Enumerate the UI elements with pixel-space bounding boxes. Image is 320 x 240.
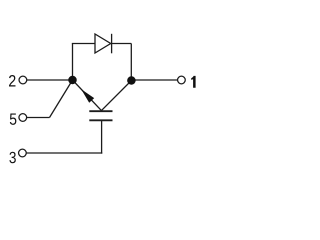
- wire terminal 5 horizontal: [27, 117, 50, 119]
- label terminal 3: [9, 152, 15, 163]
- wire top left horizontal: [72, 43, 95, 45]
- label terminal 1: [191, 76, 195, 88]
- terminal 1 circle: [178, 76, 186, 84]
- terminal 2 circle: [19, 76, 27, 84]
- wire emitter node up to diode anode: [72, 44, 74, 81]
- diode D1 cathode bar: [111, 34, 113, 54]
- wire terminal 2 to emitter node: [27, 79, 73, 81]
- node emitter junction dot: [68, 76, 77, 85]
- wire gate vertical: [101, 120, 103, 153]
- label terminal 2: [9, 75, 16, 87]
- wire collector node to terminal 1: [131, 79, 177, 81]
- label terminal 5: [10, 113, 17, 124]
- terminal 5 circle: [19, 114, 27, 122]
- wire diode cathode down to collector node: [130, 44, 132, 81]
- wire top right horizontal: [112, 43, 132, 45]
- transistor Q1 collector diagonal: [101, 81, 131, 111]
- wire terminal 3 horizontal to gate: [26, 152, 102, 154]
- wire terminal 5 diagonal to emitter node: [50, 80, 73, 118]
- node collector junction dot: [127, 76, 136, 85]
- transistor Q1 gate bar: [89, 119, 112, 121]
- transistor Q1 emitter diagonal: [73, 80, 102, 111]
- transistor Q1 emitter arrow: [81, 89, 94, 103]
- transistor Q1 channel bar: [89, 110, 112, 112]
- terminal 3 circle: [19, 149, 27, 157]
- diode D1 triangle: [95, 34, 111, 53]
